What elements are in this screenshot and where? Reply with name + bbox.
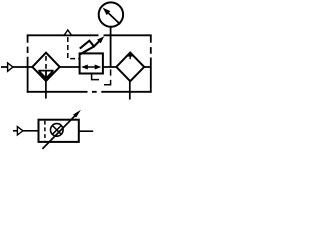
enclosure (FRL assembly boundary, dashed box) [27, 35, 152, 93]
relief vent line (dashed) [68, 37, 80, 59]
gauge needle [107, 12, 120, 25]
vent exhaust triangle [64, 30, 71, 35]
simplified filter dashed line [44, 121, 46, 141]
simplified separator circle with cross [51, 124, 64, 137]
pilot line (dashed feedback) [92, 69, 111, 84]
lubricator oil arrow [129, 56, 131, 59]
wire to simplified unit [23, 130, 39, 132]
gauge stem wire [110, 27, 112, 67]
wire: main flow line [1, 66, 151, 68]
regulator flow arrow (double-headed) [84, 66, 99, 68]
simplified outlet wire [79, 130, 93, 132]
regulator spring with adjustment arrow [80, 41, 99, 55]
lubricator drain line [129, 81, 131, 99]
simplified symbol inlet arrow [17, 127, 23, 135]
water separator baffle [38, 71, 53, 79]
filter element dashed line [45, 56, 47, 69]
simplified symbol inlet wire [13, 130, 17, 132]
pressure gauge G1 [99, 2, 123, 26]
simplified FRL unit box [39, 120, 79, 142]
filter drain line [45, 81, 47, 99]
simplified adjustment arrow [42, 115, 75, 149]
regulator R1 (box) [80, 53, 103, 73]
lubricator L1 (diamond) [116, 53, 144, 82]
filter F1 (diamond with water separator) [32, 53, 59, 81]
inlet port arrow [8, 63, 13, 71]
